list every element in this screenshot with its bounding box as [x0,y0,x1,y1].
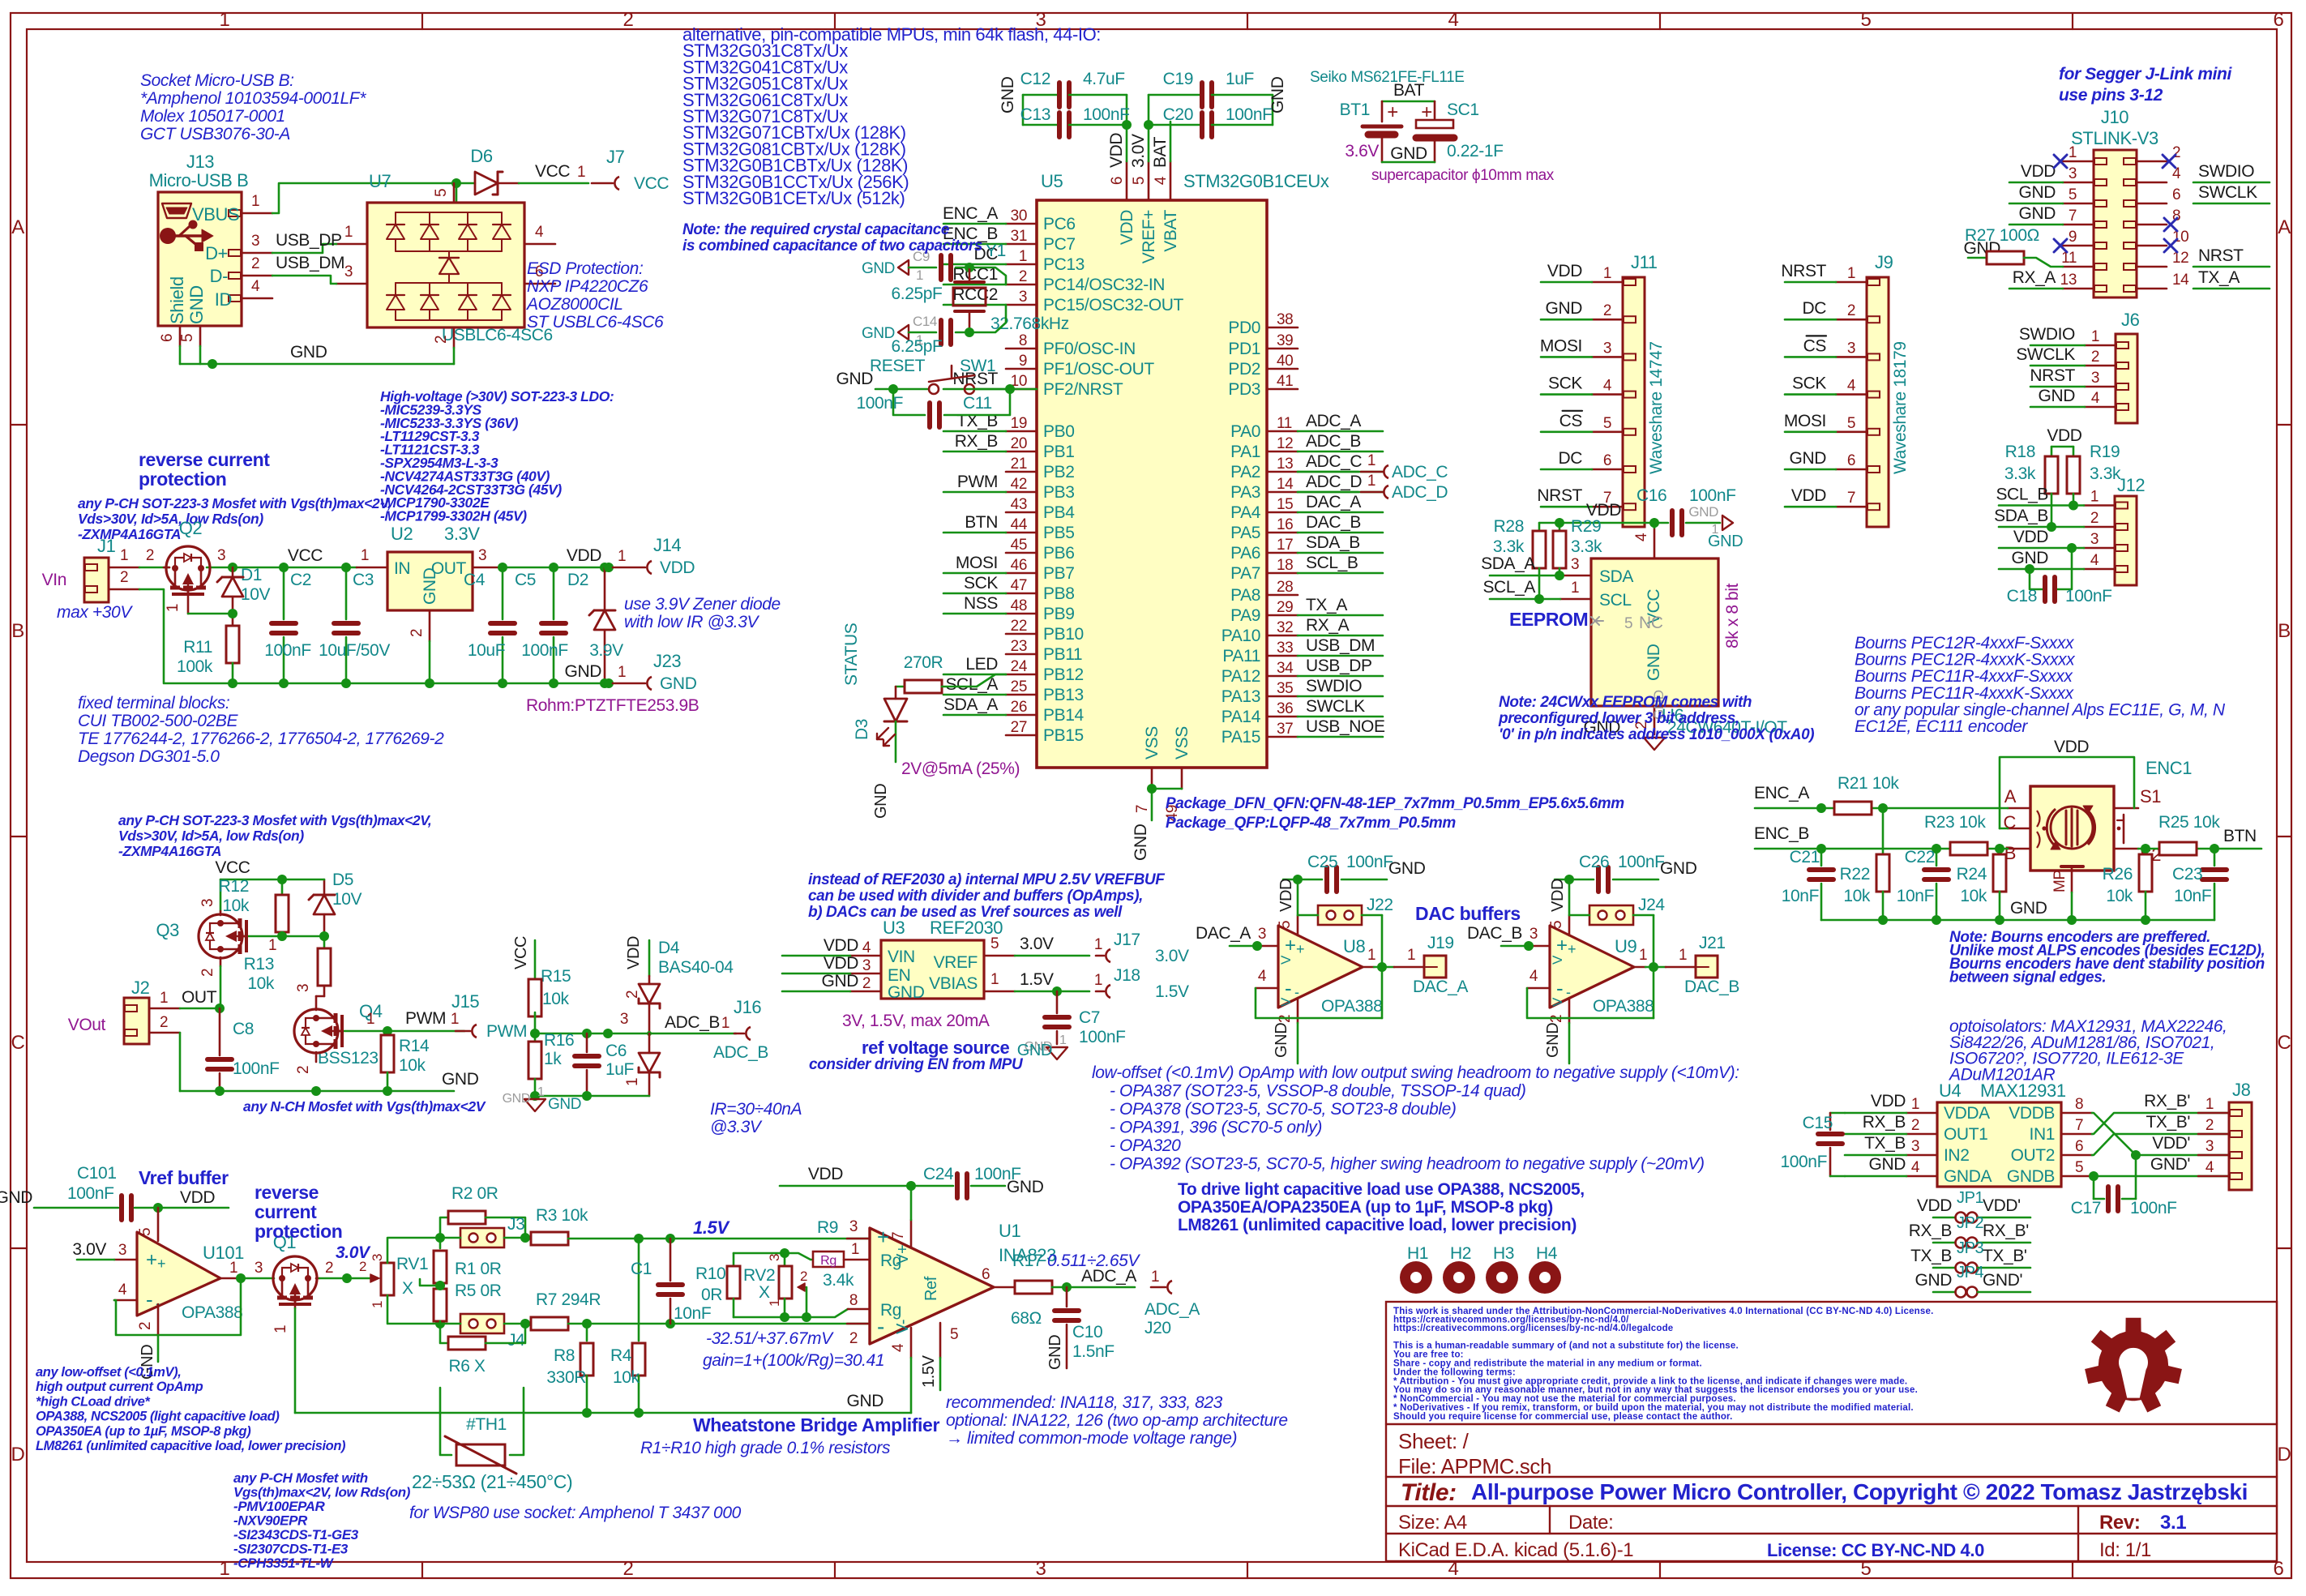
svg-text:NRST: NRST [1781,262,1826,280]
svg-text:DAC_A: DAC_A [1196,924,1251,943]
svg-text:ESD Protection:: ESD Protection: [527,259,643,278]
svg-text:BT1: BT1 [1340,101,1370,119]
svg-text:4: 4 [1633,533,1650,541]
svg-text:2: 2 [199,969,216,977]
svg-text:Vgs(th)max<2V, low Rds(on): Vgs(th)max<2V, low Rds(on) [233,1485,411,1500]
svg-text:TX_B: TX_B [1864,1134,1906,1153]
svg-text:16: 16 [1277,516,1293,533]
svg-text:43: 43 [1011,496,1027,513]
svg-text:PB13: PB13 [1043,686,1084,704]
svg-text:Id: 1/1: Id: 1/1 [2099,1539,2151,1561]
svg-text:5: 5 [1603,415,1611,432]
svg-text:LM8261 (unlimited capacitive l: LM8261 (unlimited capacitive load, lower… [1178,1216,1577,1234]
svg-text:8: 8 [849,1292,858,1309]
svg-text:13: 13 [1277,456,1293,473]
svg-text:10uF: 10uF [468,641,505,660]
svg-text:PB4: PB4 [1043,503,1075,522]
svg-text:J10: J10 [2101,107,2128,127]
svg-text:→ limited common-mode voltage: → limited common-mode voltage range) [946,1429,1237,1448]
svg-text:32.768kHz: 32.768kHz [990,314,1069,333]
svg-text:-ZXMP4A16GTA: -ZXMP4A16GTA [118,843,221,859]
svg-text:-: - [1285,976,1291,1000]
svg-text:GND: GND [862,260,895,277]
svg-text:2: 2 [2205,1117,2214,1134]
svg-text:GND: GND [565,662,602,681]
svg-text:3: 3 [1911,1138,1919,1155]
svg-text:U2: U2 [391,524,413,544]
svg-text:C4: C4 [464,571,486,589]
svg-text:Seiko MS621FE-FL11E: Seiko MS621FE-FL11E [1310,69,1465,86]
svg-text:DAC_B: DAC_B [1684,978,1739,996]
svg-text:1: 1 [851,1241,859,1258]
svg-text:1.5V: 1.5V [1155,982,1189,1001]
svg-text:1: 1 [1094,972,1102,989]
svg-text:1uF: 1uF [605,1060,634,1079]
svg-text:https://creativecommons.org/li: https://creativecommons.org/licenses/by-… [1393,1324,1673,1333]
svg-text:PC15/OSC32-OUT: PC15/OSC32-OUT [1043,296,1184,314]
svg-text:PC7: PC7 [1043,235,1076,254]
svg-text:VDD: VDD [2021,162,2056,181]
svg-text:-: - [146,1287,152,1311]
svg-text:32: 32 [1277,619,1293,636]
svg-text:SC1: SC1 [1447,101,1479,119]
svg-text:3: 3 [1036,1558,1046,1580]
svg-text:R24: R24 [1957,865,1987,884]
svg-text:R18: R18 [2005,443,2035,461]
svg-text:2: 2 [120,569,128,586]
svg-text:PB10: PB10 [1043,625,1084,644]
svg-text:-32.51/+37.67mV: -32.51/+37.67mV [706,1329,834,1348]
svg-text:3.1: 3.1 [2160,1512,2186,1534]
svg-text:3: 3 [478,547,486,564]
svg-text:38: 38 [1277,311,1293,328]
svg-text:1: 1 [1407,947,1415,964]
svg-text:PA8: PA8 [1230,586,1260,605]
svg-text:GND': GND' [2150,1155,2190,1174]
svg-text:2: 2 [1911,1117,1919,1134]
svg-text:VDD: VDD [824,936,858,955]
svg-text:Bourns PEC11R-4xxxF-Sxxxx: Bourns PEC11R-4xxxF-Sxxxx [1855,667,2073,686]
svg-text:GNDB: GNDB [2007,1167,2055,1186]
svg-text:PD1: PD1 [1228,340,1260,358]
svg-text:R13: R13 [244,955,274,973]
svg-text:protection: protection [139,469,226,490]
svg-text:1: 1 [344,224,353,241]
svg-text:ADC_B: ADC_B [665,1013,720,1032]
svg-text:GND: GND [872,784,890,819]
svg-text:R29: R29 [1571,517,1601,536]
svg-text:14: 14 [2172,272,2189,289]
svg-text:MAX12931: MAX12931 [1980,1080,2066,1101]
svg-text:IR=30÷40nA: IR=30÷40nA [710,1100,802,1119]
svg-text:Waveshare 14747: Waveshare 14747 [1647,341,1666,474]
svg-text:GND: GND [1388,859,1426,878]
svg-text:1: 1 [1094,936,1102,953]
svg-text:D3: D3 [853,719,871,740]
svg-text:28: 28 [1277,579,1293,596]
svg-text:10k: 10k [542,990,570,1008]
svg-text:U101: U101 [203,1243,244,1263]
svg-text:C: C [11,1032,25,1054]
svg-text:10k: 10k [1843,887,1871,905]
svg-text:3: 3 [344,263,353,280]
svg-text:3.3k: 3.3k [2004,464,2036,483]
svg-text:68Ω: 68Ω [1011,1309,1042,1328]
svg-text:C19: C19 [1163,70,1193,88]
svg-text:100nF: 100nF [856,394,903,413]
svg-text:D2: D2 [567,571,588,589]
svg-text:3.4k: 3.4k [823,1271,854,1290]
svg-text:Molex 105017-0001: Molex 105017-0001 [140,107,285,126]
svg-text:5: 5 [1847,415,1855,432]
svg-text:VDD: VDD [660,558,695,577]
svg-text:R2 0R: R2 0R [451,1184,498,1203]
svg-text:PC6: PC6 [1043,215,1076,233]
svg-text:C18: C18 [2007,587,2037,605]
svg-text:13: 13 [2060,272,2077,289]
svg-text:DAC_A: DAC_A [1413,978,1468,996]
svg-text:10V: 10V [332,890,362,909]
svg-text:V: V [1550,955,1565,965]
svg-text:GND: GND [862,325,895,342]
svg-text:C25: C25 [1307,853,1337,871]
svg-text:J7: J7 [606,147,625,167]
svg-text:1: 1 [268,937,276,954]
svg-text:4: 4 [1529,968,1538,985]
svg-text:GNDA: GNDA [1944,1167,1992,1186]
svg-text:reverse: reverse [255,1182,319,1203]
svg-text:1: 1 [1019,248,1027,265]
svg-text:14: 14 [1277,476,1294,493]
svg-text:PA10: PA10 [1221,627,1260,645]
svg-text:VDD: VDD [2054,738,2089,756]
svg-text:PA1: PA1 [1230,443,1260,461]
svg-text:VDD': VDD' [2152,1134,2190,1153]
svg-text:1: 1 [2069,144,2077,161]
svg-text:3.0V: 3.0V [1020,935,1054,953]
svg-text:PF0/OSC-IN: PF0/OSC-IN [1043,340,1136,358]
svg-text:ST USBLC6-4SC6: ST USBLC6-4SC6 [527,313,664,332]
svg-text:PWM: PWM [957,473,998,491]
svg-text:1: 1 [165,604,182,612]
svg-text:H1: H1 [1407,1244,1428,1263]
svg-text:PB12: PB12 [1043,665,1084,684]
svg-text:optional: INA122, 126 (two op-: optional: INA122, 126 (two op-amp archit… [946,1411,1288,1430]
svg-text:PB8: PB8 [1043,584,1075,603]
svg-text:8: 8 [1019,332,1027,349]
svg-text:CS: CS [1803,336,1827,355]
svg-text:J16: J16 [734,997,761,1017]
svg-text:3: 3 [251,233,259,250]
svg-text:1: 1 [1367,947,1375,964]
svg-text:C5: C5 [515,571,536,589]
svg-text:1: 1 [220,1558,230,1580]
svg-text:+: + [1568,941,1576,957]
svg-text:2: 2 [1847,302,1855,319]
svg-text:X: X [402,1279,413,1298]
svg-text:NXP IP4220CZ6: NXP IP4220CZ6 [527,277,648,296]
svg-text:#TH1: #TH1 [466,1415,507,1434]
svg-text:1: 1 [2090,489,2099,506]
svg-text:JP1: JP1 [1957,1189,1984,1207]
svg-text:Title:: Title: [1401,1479,1457,1506]
svg-text:PB15: PB15 [1043,726,1084,745]
svg-text:MOSI: MOSI [956,554,998,572]
svg-text:7: 7 [2069,208,2077,225]
svg-text:10k: 10k [247,974,275,993]
svg-text:PA11: PA11 [1222,647,1260,665]
svg-text:3: 3 [767,1254,782,1261]
svg-text:PA6: PA6 [1230,544,1260,563]
svg-text:instead of REF2030 a) internal: instead of REF2030 a) internal MPU 2.5V … [808,871,1166,888]
svg-text:BAT: BAT [1393,81,1425,100]
svg-text:3.3k: 3.3k [1493,537,1525,556]
svg-text:TX_B: TX_B [1910,1247,1952,1265]
svg-text:5: 5 [1624,615,1632,632]
svg-text:Degson DG301-5.0: Degson DG301-5.0 [78,747,220,766]
svg-text:RX_B': RX_B' [1983,1222,2029,1240]
svg-text:11: 11 [2061,250,2077,267]
svg-text:44: 44 [1011,516,1028,533]
svg-text:+: + [146,1249,157,1271]
svg-text:Shield: Shield [167,276,187,324]
svg-text:22÷53Ω (21÷450°C): 22÷53Ω (21÷450°C) [412,1471,572,1492]
svg-text:AOZ8000CIL: AOZ8000CIL [525,295,623,314]
svg-text:PA0: PA0 [1230,422,1260,441]
svg-text:47: 47 [1011,577,1027,594]
svg-text:D: D [11,1444,25,1465]
svg-text:EEPROM: EEPROM [1509,609,1588,630]
svg-text:OPA350EA (up to 1µF, MSOP-8 pk: OPA350EA (up to 1µF, MSOP-8 pkg) [36,1424,251,1439]
svg-text:2: 2 [2091,349,2099,366]
svg-text:1.5V: 1.5V [693,1217,730,1238]
svg-text:1: 1 [1151,1269,1159,1286]
svg-text:DAC_A: DAC_A [1306,493,1361,511]
svg-text:1: 1 [272,1325,289,1333]
svg-text:IN2: IN2 [1944,1146,1969,1165]
svg-text:Note: the required crystal cap: Note: the required crystal capacitance [682,221,950,238]
svg-text:GND: GND [548,1096,581,1113]
svg-text:ADC_C: ADC_C [1306,452,1362,471]
svg-text:JP4: JP4 [1957,1264,1984,1282]
svg-text:EN: EN [888,966,910,985]
svg-text:3: 3 [2069,165,2077,182]
svg-text:ENC_B: ENC_B [1754,824,1809,843]
svg-text:VCC: VCC [215,858,250,877]
svg-text:Package_QFP:LQFP-48_7x7mm_P0.5: Package_QFP:LQFP-48_7x7mm_P0.5mm [1166,815,1456,832]
svg-text:1: 1 [366,1011,374,1028]
svg-text:2: 2 [409,629,426,637]
svg-text:PA14: PA14 [1221,708,1261,726]
svg-text:D5: D5 [332,871,353,889]
svg-text:J14: J14 [653,535,681,555]
svg-text:9: 9 [1019,353,1027,370]
svg-text:10nF: 10nF [2174,887,2211,905]
svg-text:USB_DP: USB_DP [1306,657,1372,675]
svg-text:V+: V+ [894,1245,912,1264]
svg-text:GND: GND [1132,824,1150,861]
svg-text:100nF: 100nF [1079,1028,1126,1046]
svg-text:- OPA387 (SOT23-5, VSSOP-8 do: - OPA387 (SOT23-5, VSSOP-8 double, TSSOP… [1110,1082,1525,1101]
svg-text:File: APPMC.sch: File: APPMC.sch [1398,1454,1551,1478]
svg-text:330R: 330R [546,1368,586,1387]
svg-text:-ZXMP4A16GTA: -ZXMP4A16GTA [78,526,181,542]
svg-text:Rohm:PTZTFTE253.9B: Rohm:PTZTFTE253.9B [526,696,699,715]
svg-text:100nF: 100nF [233,1059,280,1078]
svg-text:4: 4 [535,224,544,241]
svg-text:R1÷R10 high grade 0.1% resisto: R1÷R10 high grade 0.1% resistors [640,1439,891,1457]
svg-text:D-: D- [210,266,228,286]
svg-text:ADC_A: ADC_A [1306,412,1361,430]
svg-text:45: 45 [1011,537,1027,554]
svg-text:R17: R17 [1012,1252,1042,1270]
svg-text:R4: R4 [610,1346,632,1365]
svg-text:J21: J21 [1699,934,1726,952]
svg-text:2: 2 [295,1066,312,1074]
svg-text:PA3: PA3 [1230,483,1260,502]
svg-text:max +30V: max +30V [57,603,133,622]
svg-text:100nF: 100nF [67,1184,114,1203]
svg-text:GND: GND [888,983,925,1002]
svg-text:3: 3 [199,899,216,907]
svg-text:OPA388, NCS2005 (light capacit: OPA388, NCS2005 (light capacitive load) [36,1410,280,1424]
svg-text:Q2: Q2 [179,518,203,538]
svg-text:U4: U4 [1939,1080,1961,1101]
svg-text:R23 10k: R23 10k [1924,813,1986,832]
svg-text:GND: GND [503,1092,530,1106]
svg-text:PWM: PWM [486,1022,527,1041]
svg-text:STM32G0B1CETx/Ux (512k): STM32G0B1CETx/Ux (512k) [682,188,905,208]
svg-text:7: 7 [1847,490,1855,507]
svg-text:DC: DC [1802,299,1826,318]
svg-text:for WSP80 use socket: Amphenol: for WSP80 use socket: Amphenol T 3437 00… [409,1504,742,1522]
svg-text:100nF: 100nF [1780,1153,1827,1171]
svg-text:OPA388: OPA388 [1321,997,1382,1016]
svg-text:GND: GND [822,972,859,991]
svg-text:USB_DP: USB_DP [276,231,342,250]
svg-text:2: 2 [624,991,641,999]
svg-text:Should you require license for: Should you require license for commercia… [1393,1412,1733,1422]
svg-text:VCC: VCC [512,936,530,969]
svg-text:R6 X: R6 X [448,1357,485,1376]
svg-text:RX_A: RX_A [2013,268,2056,287]
svg-text:100nF: 100nF [1083,105,1130,124]
svg-text:VDD: VDD [1917,1196,1952,1215]
svg-text:2: 2 [325,1260,333,1277]
svg-text:5: 5 [2075,1159,2083,1176]
svg-text:IN1: IN1 [2030,1125,2055,1144]
svg-text:H3: H3 [1493,1244,1514,1263]
svg-text:NRST: NRST [2030,366,2075,385]
svg-text:R25 10k: R25 10k [2158,813,2220,832]
svg-text:ID: ID [215,289,232,310]
svg-text:U7: U7 [369,171,391,191]
svg-text:8k x 8 bit: 8k x 8 bit [1723,583,1742,648]
svg-text:-PMV100EPAR: -PMV100EPAR [233,1499,326,1514]
svg-text:'0' in p/n indicates address 1: '0' in p/n indicates address 1010_000X (… [1499,726,1814,743]
svg-text:SCL_B: SCL_B [1996,486,2048,504]
svg-text:D1: D1 [241,566,262,584]
svg-text:preconfigured lower 3 bit addr: preconfigured lower 3 bit address, [1498,710,1739,727]
svg-text:2: 2 [1603,302,1611,319]
svg-text:1: 1 [1059,1033,1067,1047]
svg-text:GND': GND' [1983,1271,2022,1290]
svg-text:100nF: 100nF [2130,1199,2177,1217]
svg-text:C14: C14 [913,314,937,329]
svg-text:RX_B': RX_B' [2144,1092,2190,1110]
svg-text:use 3.9V Zener diode: use 3.9V Zener diode [624,595,781,614]
svg-text:-NXV90EPR: -NXV90EPR [233,1513,308,1529]
svg-text:35: 35 [1277,680,1293,697]
svg-text:Micro-USB B: Micro-USB B [149,170,249,190]
svg-text:3: 3 [1603,340,1611,357]
svg-text:-MCP1799-3302H (45V): -MCP1799-3302H (45V) [380,508,527,524]
svg-text:SWDIO: SWDIO [1306,677,1362,695]
svg-text:2: 2 [1019,268,1027,285]
svg-text:PB9: PB9 [1043,605,1075,623]
svg-text:VSS: VSS [1173,726,1192,759]
svg-text:10k: 10k [1960,887,1987,905]
svg-text:6.25pF: 6.25pF [892,337,943,356]
svg-text:34: 34 [1277,660,1294,677]
svg-text:3: 3 [1019,289,1027,306]
svg-text:2: 2 [251,255,259,272]
svg-text:DC: DC [1558,449,1582,468]
svg-text:GND: GND [999,76,1017,113]
svg-text:current: current [255,1201,317,1222]
svg-text:J17: J17 [1114,931,1140,949]
svg-text:4: 4 [118,1282,127,1299]
svg-text:R14: R14 [399,1037,430,1055]
svg-text:SWCLK: SWCLK [2198,183,2257,202]
svg-text:RX_B: RX_B [955,432,998,451]
svg-text:PA9: PA9 [1230,606,1260,625]
svg-text:2: 2 [137,1322,154,1330]
svg-text:SWCLK: SWCLK [1306,697,1365,716]
svg-text:36: 36 [1277,700,1293,717]
svg-text:R22: R22 [1840,865,1870,884]
svg-text:Rev:: Rev: [2099,1512,2140,1534]
svg-text:46: 46 [1011,557,1027,574]
svg-text:GND: GND [1869,1155,1906,1174]
svg-text:License: CC BY-NC-ND 4.0: License: CC BY-NC-ND 4.0 [1767,1540,1984,1560]
svg-text:1k: 1k [544,1050,562,1068]
svg-text:4: 4 [2091,390,2100,407]
svg-text:VDD: VDD [1547,262,1582,280]
svg-text:ADC_A: ADC_A [1081,1267,1136,1286]
svg-text:5: 5 [1277,921,1294,929]
svg-text:Vref buffer: Vref buffer [139,1167,229,1188]
svg-text:Note: 24CWxx EEPROM comes with: Note: 24CWxx EEPROM comes with [1499,694,1752,711]
svg-text:Waveshare 18179: Waveshare 18179 [1891,341,1910,474]
svg-text:J9: J9 [1875,252,1893,272]
svg-text:any P-CH SOT-223-3 Mosfet with: any P-CH SOT-223-3 Mosfet with Vgs(th)ma… [118,812,431,828]
svg-text:1: 1 [916,267,923,283]
svg-text:BTN: BTN [965,513,998,532]
svg-text:GND: GND [1046,1335,1064,1370]
svg-text:GND: GND [0,1188,32,1207]
svg-text:OUT1: OUT1 [1944,1125,1987,1144]
svg-text:PD0: PD0 [1228,319,1260,337]
svg-text:All-purpose Power Micro Contro: All-purpose Power Micro Controller, Copy… [1471,1479,2248,1504]
svg-text:100nF: 100nF [1618,853,1665,871]
svg-text:3.0V: 3.0V [1155,947,1189,965]
svg-text:4: 4 [862,939,871,956]
svg-text:VDD: VDD [1118,210,1136,245]
svg-text:NRST: NRST [2198,246,2244,265]
svg-text:100nF: 100nF [1689,486,1736,505]
svg-text:USB_DM: USB_DM [1306,636,1375,655]
